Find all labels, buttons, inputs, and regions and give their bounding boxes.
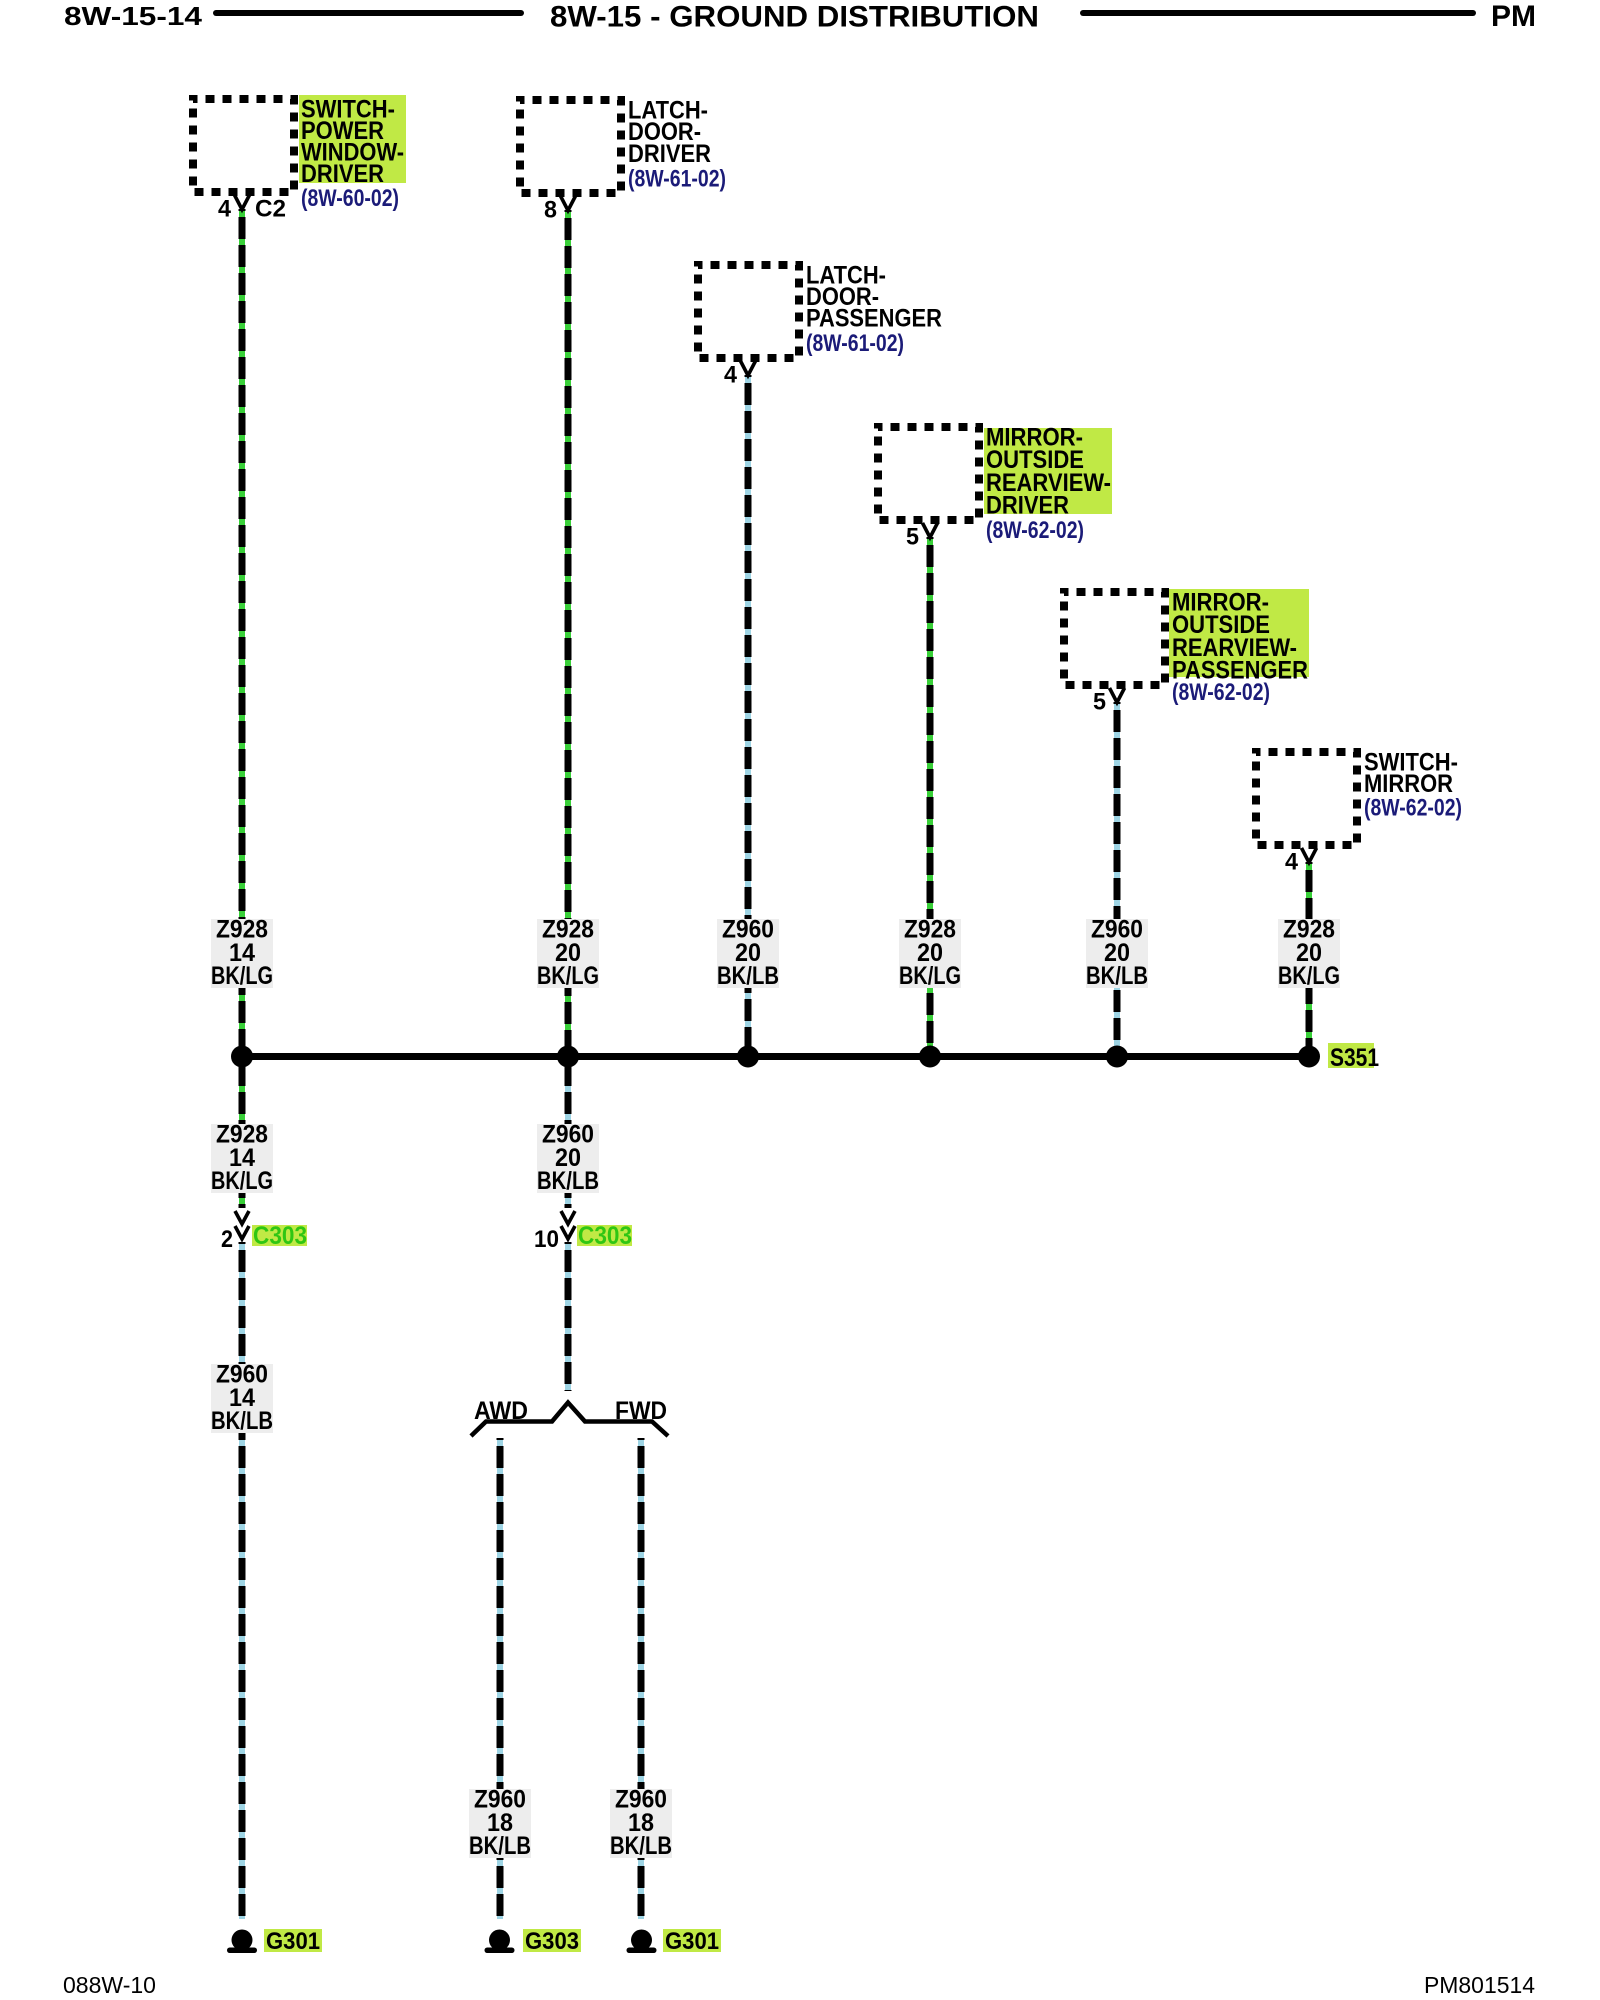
wire Z928 20 BK/LG to S351 (1306, 862, 1312, 1056)
svg-text:(8W-62-02): (8W-62-02) (1172, 679, 1270, 706)
svg-text:(8W-62-02): (8W-62-02) (1364, 795, 1462, 822)
svg-text:DRIVER: DRIVER (628, 140, 711, 168)
header rule left (216, 10, 521, 16)
highlight behind MIRROR OUTSIDE REARVIEW PASSENGER label (1169, 589, 1309, 677)
junction dot at x=1309 on S351 (1298, 1046, 1320, 1068)
svg-text:FWD: FWD (615, 1397, 667, 1425)
connector pin symbol pin of MIRROR OUTSIDE REARVIEW DRIVER (923, 523, 938, 538)
wire Z928 14 BK/LG S351 to C303 (239, 1056, 245, 1208)
splice bus S351 (242, 1053, 1309, 1060)
junction dot at x=242 on S351 (231, 1046, 253, 1068)
component box SWITCH MIRROR (1256, 752, 1357, 845)
svg-text:PM801514: PM801514 (1424, 1972, 1535, 1998)
label text SWITCH MIRROR (1364, 749, 1458, 799)
highlight behind MIRROR OUTSIDE REARVIEW DRIVER label (984, 428, 1112, 514)
connector label C303 (577, 1222, 632, 1250)
svg-text:4: 4 (1285, 849, 1299, 876)
svg-text:5: 5 (1093, 689, 1106, 716)
label text LATCH DOOR DRIVER (628, 97, 711, 168)
svg-text:BK/LG: BK/LG (537, 962, 599, 990)
wire Z960 20 BK/LB S351 to C303 (565, 1056, 571, 1208)
svg-text:BK/LB: BK/LB (717, 962, 779, 990)
label Z960 18 BK/LB AWD (469, 1786, 531, 1861)
label Z960 20 BK/LB below bus (537, 1121, 599, 1196)
svg-text:10: 10 (534, 1226, 559, 1253)
in-line connector C303 at wire x=568 (561, 1211, 575, 1239)
label Z960 18 BK/LB FWD (610, 1786, 672, 1861)
label text LATCH DOOR PASSENGER (806, 262, 942, 333)
junction dot at x=748 on S351 (737, 1046, 759, 1068)
svg-text:(8W-61-02): (8W-61-02) (806, 330, 904, 357)
svg-text:PASSENGER: PASSENGER (806, 305, 942, 333)
highlight behind SWITCH POWER WINDOW DRIVER label (299, 95, 406, 183)
wire Z960 18 BK/LB AWD branch to G303 (497, 1438, 503, 1919)
svg-text:AWD: AWD (474, 1397, 528, 1425)
component box LATCH DOOR DRIVER (520, 100, 621, 193)
header rule right (1083, 10, 1473, 16)
label text MIRROR OUTSIDE REARVIEW DRIVER (986, 424, 1111, 520)
svg-text:DRIVER: DRIVER (301, 160, 384, 188)
label Z960 14 BK/LB (211, 1361, 273, 1436)
connector pin symbol pin of SWITCH MIRROR (1302, 848, 1317, 863)
connector pin symbol pin of MIRROR OUTSIDE REARVIEW PASSENGER (1110, 688, 1125, 703)
wire Z960 20 BK/LB C303 to split (565, 1242, 571, 1391)
wire Z928 14 BK/LG to S351 (239, 209, 245, 1056)
svg-text:8: 8 (544, 197, 557, 224)
svg-text:BK/LB: BK/LB (1086, 962, 1148, 990)
svg-text:BK/LB: BK/LB (537, 1167, 599, 1195)
label Z928 14 BK/LG (211, 916, 273, 991)
component box LATCH DOOR PASSENGER (698, 265, 799, 358)
svg-text:BK/LG: BK/LG (899, 962, 961, 990)
ground G303 (485, 1930, 515, 1954)
svg-text:088W-10: 088W-10 (63, 1972, 156, 1998)
connector label C303 (252, 1222, 307, 1250)
junction dot at x=568 on S351 (557, 1046, 579, 1068)
junction dot at x=930 on S351 (919, 1046, 941, 1068)
component box MIRROR OUTSIDE REARVIEW PASSENGER (1064, 592, 1165, 685)
svg-text:(8W-61-02): (8W-61-02) (628, 166, 726, 193)
wire Z960 14 BK/LB C303 to G301 (239, 1242, 245, 1919)
svg-text:DRIVER: DRIVER (986, 492, 1069, 520)
junction dot at x=1117 on S351 (1106, 1046, 1128, 1068)
split symbol AWD/FWD branch (471, 1403, 668, 1437)
ground label G303 (523, 1928, 581, 1955)
svg-text:C303: C303 (253, 1222, 307, 1250)
svg-text:BK/LB: BK/LB (610, 1832, 672, 1860)
ground G301 left (227, 1930, 257, 1954)
wire Z928 20 BK/LG to S351 (565, 210, 571, 1056)
label Z928 20 BK/LG (537, 916, 599, 991)
connector pin symbol pin of SWITCH POWER WINDOW DRIVER (235, 195, 250, 210)
svg-text:BK/LG: BK/LG (211, 962, 273, 990)
label text MIRROR OUTSIDE REARVIEW PASSENGER (1172, 589, 1308, 685)
ground label G301 (264, 1928, 322, 1955)
wire Z960 18 BK/LB FWD branch to G301 (638, 1438, 644, 1919)
label text SWITCH POWER WINDOW DRIVER (301, 96, 404, 189)
label Z960 20 BK/LB (717, 916, 779, 991)
splice label S351 (1328, 1043, 1379, 1072)
svg-text:PM: PM (1491, 0, 1536, 33)
svg-text:C303: C303 (578, 1222, 632, 1250)
component box MIRROR OUTSIDE REARVIEW DRIVER (878, 427, 979, 520)
label Z928 20 BK/LG (1278, 916, 1340, 991)
svg-text:8W-15-14: 8W-15-14 (64, 1, 203, 31)
svg-text:C2: C2 (255, 196, 286, 223)
wire Z960 20 BK/LB to S351 (1114, 702, 1120, 1056)
ground G301 right (627, 1930, 657, 1954)
wire Z928 20 BK/LG to S351 (927, 537, 933, 1056)
component box SWITCH POWER WINDOW DRIVER (193, 99, 294, 192)
svg-text:8W-15 - GROUND DISTRIBUTION: 8W-15 - GROUND DISTRIBUTION (550, 1, 1039, 34)
svg-text:S351: S351 (1330, 1044, 1379, 1072)
svg-text:BK/LB: BK/LB (211, 1407, 273, 1435)
svg-text:BK/LG: BK/LG (1278, 962, 1340, 990)
svg-text:BK/LG: BK/LG (211, 1167, 273, 1195)
svg-text:BK/LB: BK/LB (469, 1832, 531, 1860)
svg-text:(8W-62-02): (8W-62-02) (986, 517, 1084, 544)
svg-text:5: 5 (906, 524, 919, 551)
label Z960 20 BK/LB (1086, 916, 1148, 991)
svg-text:G303: G303 (525, 1928, 579, 1955)
ground label G301 right (663, 1928, 721, 1955)
connector pin symbol pin of LATCH DOOR DRIVER (561, 196, 576, 211)
svg-text:4: 4 (218, 196, 232, 223)
label Z928 14 BK/LG below bus (211, 1121, 273, 1196)
svg-text:G301: G301 (665, 1928, 719, 1955)
svg-text:4: 4 (724, 362, 738, 389)
connector pin symbol pin of LATCH DOOR PASSENGER (741, 361, 756, 376)
in-line connector C303 at wire x=242 (235, 1211, 249, 1239)
svg-text:G301: G301 (266, 1928, 320, 1955)
svg-text:2: 2 (221, 1226, 233, 1253)
label Z928 20 BK/LG (899, 916, 961, 991)
svg-text:(8W-60-02): (8W-60-02) (301, 185, 399, 212)
wire Z960 20 BK/LB to S351 (745, 375, 751, 1056)
